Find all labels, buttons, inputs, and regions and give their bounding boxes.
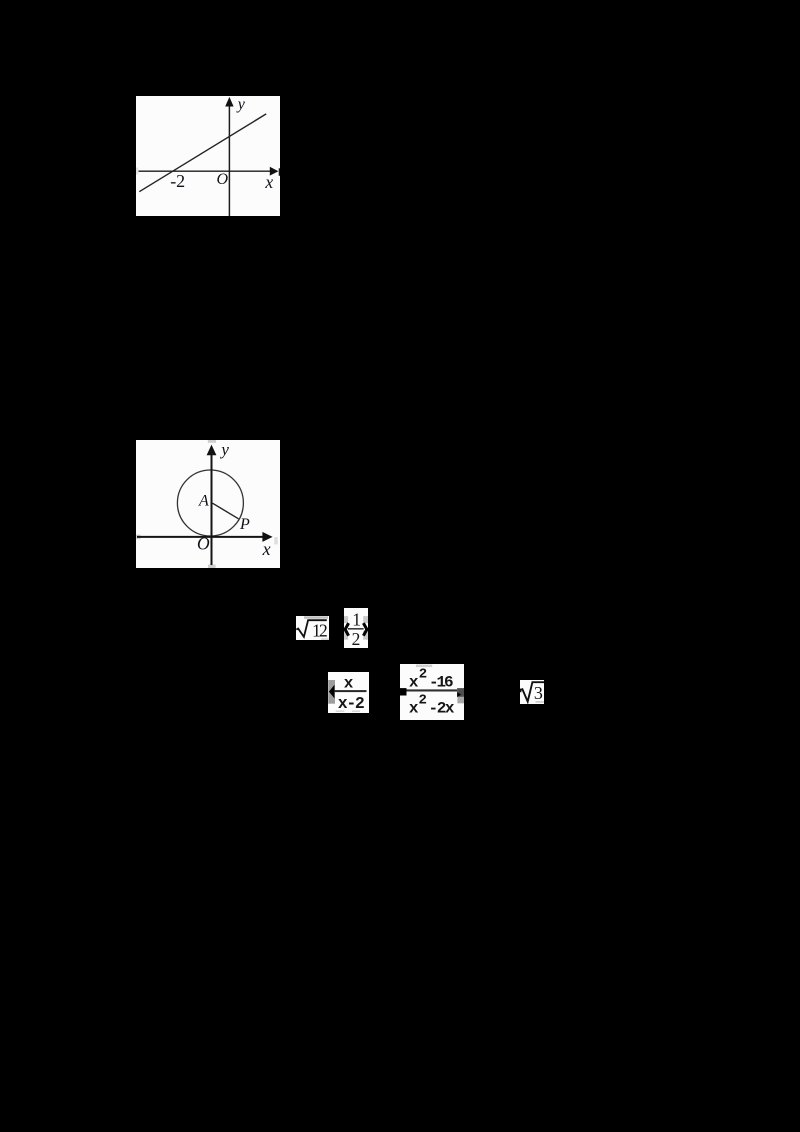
gray handle right-top — [363, 616, 368, 623]
gray top strip — [304, 616, 328, 618]
y-axis arrowhead — [207, 445, 217, 456]
gray handle left-top — [344, 616, 348, 623]
equation 1/2 with selection handles — [344, 608, 368, 648]
fraction bar — [407, 689, 458, 691]
fraction bar — [334, 690, 366, 692]
y-axis — [211, 453, 213, 565]
equation sqrt(3) — [520, 680, 544, 704]
white panel — [136, 96, 280, 216]
svg-text:x: x — [344, 675, 354, 693]
svg-text:P: P — [239, 516, 250, 533]
svg-text:A: A — [198, 493, 209, 510]
svg-text:3: 3 — [534, 683, 543, 703]
svg-text:12: 12 — [312, 620, 328, 640]
svg-text:2: 2 — [419, 693, 427, 709]
top edge notch (crop artifact) — [208, 440, 216, 443]
x-axis — [137, 536, 266, 538]
svg-text:x: x — [409, 700, 419, 718]
svg-text:x-2: x-2 — [338, 694, 365, 713]
svg-text:1: 1 — [352, 609, 361, 629]
x-axis arrowhead — [270, 167, 279, 176]
svg-text:x: x — [264, 172, 273, 192]
radical sign — [296, 620, 327, 637]
x-axis — [139, 170, 273, 172]
light gray handle right-bottom — [457, 697, 464, 703]
svg-text:O: O — [197, 534, 210, 554]
svg-text:x: x — [409, 674, 419, 692]
gray strip left — [328, 680, 335, 704]
black left arrow — [329, 685, 335, 699]
radius line A to P — [213, 503, 239, 519]
equation sqrt(12) — [296, 616, 329, 640]
y-axis — [228, 105, 230, 216]
svg-text:-16: -16 — [429, 674, 454, 692]
sloped line — [139, 114, 266, 192]
svg-text:O: O — [217, 171, 229, 188]
svg-text:y: y — [236, 96, 246, 113]
circle A — [177, 470, 243, 536]
fraction bar — [348, 628, 364, 630]
left edge tick — [520, 689, 521, 693]
y-axis arrowhead — [225, 97, 233, 107]
svg-text:-2x: -2x — [429, 699, 455, 717]
right edge tick (crop artifact) — [279, 168, 280, 176]
gray bottom marks — [336, 710, 345, 712]
figure 1: line graph white box — [136, 96, 280, 216]
bottom edge notch (crop artifact) — [208, 565, 216, 568]
svg-text:y: y — [219, 440, 229, 459]
left edge notch (crop artifact) — [136, 535, 141, 540]
figure 2: circle graph white box — [136, 440, 280, 568]
radical sign — [520, 682, 544, 701]
x-axis arrowhead — [262, 532, 272, 542]
gray handle right-bottom — [363, 631, 368, 640]
left edge tick (crop artifact) — [136, 168, 138, 175]
gray handle left-bottom — [344, 631, 348, 640]
dark gray handle right — [457, 688, 464, 697]
right black chevron — [363, 623, 367, 636]
svg-text:2: 2 — [419, 666, 427, 682]
black square handle left — [400, 688, 407, 695]
left black chevron — [345, 623, 349, 636]
gray top notch — [416, 665, 432, 668]
svg-text:x: x — [262, 539, 271, 559]
gray bottom-right strip — [321, 638, 329, 640]
right edge notch (crop artifact) — [274, 537, 277, 544]
equation (x^2-16)/(x^2-2x) with selection handles — [400, 664, 464, 720]
white panel — [136, 440, 280, 568]
svg-text:-2: -2 — [170, 171, 185, 191]
gray bottom-right strip — [536, 701, 545, 703]
black right arrow dot — [457, 692, 461, 697]
svg-text:2: 2 — [352, 629, 361, 648]
equation x/(x-2) with selection handles — [328, 672, 369, 713]
